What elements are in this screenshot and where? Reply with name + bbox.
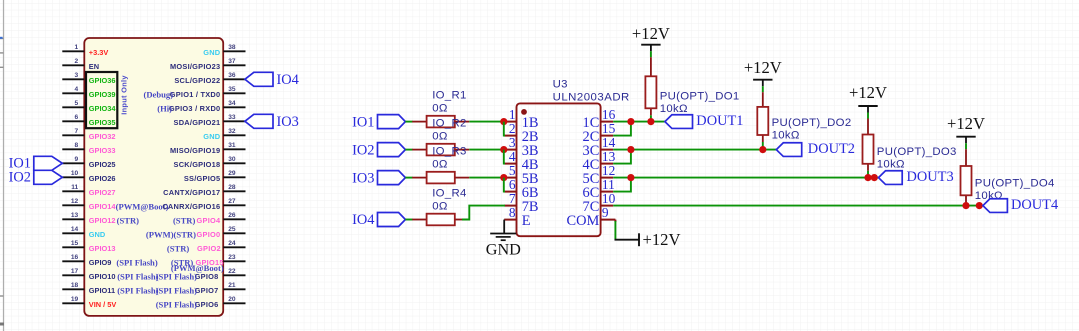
U3 pin 3 (3B) stub — [504, 135, 538, 159]
svg-text:+12V: +12V — [643, 230, 681, 249]
svg-text:28: 28 — [228, 184, 236, 191]
op-chip U3 pin-1 marker dot — [521, 109, 527, 115]
resistor PU(OPT)_DO4 leads — [965, 149, 967, 202]
svg-text:IO_R4: IO_R4 — [432, 187, 466, 199]
wire drop to lower pin (row 2) — [504, 150, 505, 164]
U3 pin 7 (7B) stub — [504, 191, 538, 215]
ESP32 pin 29 stub and number — [223, 170, 245, 177]
svg-text:(PWM@Boot): (PWM@Boot) — [116, 202, 169, 212]
svg-text:MOSI/GPIO23: MOSI/GPIO23 — [170, 62, 220, 71]
resistor IO_R4 body — [427, 214, 455, 226]
ESP32 pin 28 stub and number — [223, 184, 245, 191]
svg-text:12: 12 — [602, 163, 615, 178]
ESP32 pin 2 stub and number — [62, 58, 84, 65]
svg-text:4: 4 — [75, 86, 79, 93]
svg-text:(SPI Flash): (SPI Flash) — [116, 258, 157, 268]
ESP32 pin 11 stub and number — [62, 184, 84, 191]
svg-text:IO_R2: IO_R2 — [432, 118, 466, 130]
resistor PU(OPT)_DO1 body — [645, 76, 656, 108]
svg-text:GPIO6: GPIO6 — [195, 300, 219, 309]
svg-text:7: 7 — [509, 191, 516, 206]
svg-text:IO2: IO2 — [9, 169, 31, 185]
resistor IO_R2 body — [427, 144, 455, 156]
svg-text:35: 35 — [228, 86, 236, 93]
svg-text:GND: GND — [486, 241, 521, 259]
svg-text:(STR): (STR) — [173, 216, 196, 226]
port IO2 (to ESP32 pin 10) — [9, 169, 63, 185]
ESP32 pin 23 stub and number — [223, 254, 245, 261]
svg-text:16: 16 — [71, 254, 79, 261]
junction DOUT4 resistor — [962, 202, 969, 209]
svg-text:19: 19 — [71, 296, 79, 303]
svg-text:14: 14 — [602, 135, 616, 150]
svg-text:PU(OPT)_DO3: PU(OPT)_DO3 — [877, 146, 957, 158]
svg-text:10: 10 — [602, 191, 616, 206]
ESP32 pin 24 stub and number — [223, 240, 245, 247]
svg-text:+12V: +12V — [947, 114, 985, 133]
ESP32 pin 18 stub and number — [62, 282, 84, 289]
ESP32 pin 9 stub and number — [62, 156, 84, 163]
sheet border tick marks — [0, 39, 4, 297]
svg-text:15: 15 — [71, 240, 79, 247]
svg-text:GPIO35: GPIO35 — [89, 118, 116, 127]
junction DOUT3 pins — [627, 174, 634, 181]
ESP32 pin 10 stub and number — [62, 170, 84, 177]
svg-text:GPIO34: GPIO34 — [89, 104, 117, 113]
resistor IO_R1 body — [427, 116, 455, 128]
svg-text:10kΩ: 10kΩ — [877, 158, 905, 170]
resistor PU(OPT)_DO2 body — [757, 107, 768, 135]
U3 pin 14 (3C) stub — [583, 135, 616, 159]
ESP32 pin 38 stub and number — [223, 44, 245, 51]
ESP32 pin 1 stub and number — [62, 44, 84, 51]
svg-text:4: 4 — [509, 149, 516, 164]
svg-text:GPIO7: GPIO7 — [195, 286, 219, 295]
U3 pin 10 (7C) stub — [583, 191, 616, 215]
svg-text:DOUT2: DOUT2 — [808, 141, 855, 157]
svg-text:8: 8 — [75, 142, 79, 149]
wire U3 E pin to ground — [503, 220, 505, 234]
ESP32 pin 8 stub and number — [62, 142, 84, 149]
resistor PU(OPT)_DO4 body — [961, 166, 972, 195]
svg-text:EN: EN — [89, 62, 99, 71]
svg-text:16: 16 — [602, 107, 616, 122]
wire +12V to resistor PU(OPT)_DO2 — [762, 86, 764, 92]
junction at U3 input pin pair 2 — [500, 146, 507, 153]
svg-text:8: 8 — [509, 205, 516, 220]
svg-text:14: 14 — [71, 226, 79, 233]
svg-text:31: 31 — [228, 142, 236, 149]
svg-text:CANTX/GPIO17: CANTX/GPIO17 — [163, 188, 220, 197]
svg-text:GND: GND — [203, 48, 221, 57]
wire resistor PU(OPT)_DO4 to output net — [965, 202, 967, 205]
U3 pin 1 (1B) stub — [504, 107, 538, 131]
resistor IO_R1 leads — [412, 121, 469, 123]
svg-text:(PWM@Boot): (PWM@Boot) — [171, 263, 224, 273]
port DOUT2 — [776, 141, 855, 157]
svg-text:IO3: IO3 — [277, 114, 299, 130]
wire drop pin14 to pin13 — [613, 150, 631, 164]
power +12V (stage 2) — [744, 58, 782, 86]
resistor IO_R3 leads — [412, 177, 469, 179]
U3 pin 5 (5B) stub — [504, 163, 538, 187]
ESP32 pin 6 stub and number — [62, 114, 84, 121]
svg-text:(Debug): (Debug) — [143, 90, 173, 100]
svg-text:32: 32 — [228, 128, 236, 135]
svg-text:12: 12 — [71, 198, 79, 205]
wire drop to lower pin (row 3) — [504, 178, 505, 192]
ESP32 pin 33 stub and number — [223, 114, 245, 121]
svg-text:VIN / 5V: VIN / 5V — [89, 300, 117, 309]
power +12V (stage 3) — [849, 83, 887, 112]
ESP32 pin 26 stub and number — [223, 212, 245, 219]
svg-text:IO4: IO4 — [352, 212, 374, 228]
svg-text:20: 20 — [228, 296, 236, 303]
junction DOUT1 resistor — [647, 118, 654, 125]
svg-text:COM: COM — [567, 213, 600, 229]
power +12V (stage 4) — [947, 114, 985, 143]
svg-text:MISO/GPIO19: MISO/GPIO19 — [170, 146, 220, 155]
ESP32 pin 5 stub and number — [62, 100, 84, 107]
svg-text:GPIO13: GPIO13 — [89, 244, 116, 253]
ESP32 pin 21 stub and number — [223, 282, 245, 289]
svg-text:13: 13 — [71, 212, 79, 219]
svg-text:GPIO9: GPIO9 — [89, 258, 112, 267]
ESP32 pin 19 stub and number — [62, 296, 84, 303]
svg-text:GPIO0: GPIO0 — [197, 230, 221, 239]
svg-text:10kΩ: 10kΩ — [660, 103, 688, 115]
svg-text:GPIO26: GPIO26 — [89, 174, 116, 183]
U3 pin 4 (4B) stub — [504, 149, 538, 173]
svg-text:+12V: +12V — [849, 83, 887, 102]
U3 pin 8 (E) stub — [504, 205, 531, 229]
svg-text:3: 3 — [509, 135, 516, 150]
svg-text:6: 6 — [509, 177, 516, 192]
wire IO_R4 jog to U3 pin 7 — [462, 206, 505, 220]
svg-text:1: 1 — [509, 107, 516, 122]
svg-text:37: 37 — [228, 58, 236, 65]
svg-text:GPIO14: GPIO14 — [89, 202, 117, 211]
wire net DOUT4 (pin 10) — [613, 205, 983, 207]
ESP32 pin 3 stub and number — [62, 72, 84, 79]
svg-text:22: 22 — [228, 268, 236, 275]
ESP32 pin 20 stub and number — [223, 296, 245, 303]
ESP32 pin 7 stub and number — [62, 128, 84, 135]
svg-text:33: 33 — [228, 114, 236, 121]
svg-text:0Ω: 0Ω — [432, 200, 448, 212]
wire +12V to resistor PU(OPT)_DO4 — [965, 143, 967, 149]
svg-text:(SPI Flash): (SPI Flash) — [117, 286, 158, 296]
svg-text:SCL/GPIO22: SCL/GPIO22 — [174, 76, 220, 85]
port IO4 (middle) — [352, 212, 405, 228]
port IO3 (middle) — [352, 170, 405, 186]
svg-text:IO3: IO3 — [352, 170, 374, 186]
svg-text:26: 26 — [228, 212, 236, 219]
ESP32 module body — [84, 38, 223, 316]
ESP32 pin 34 stub and number — [223, 100, 245, 107]
svg-text:+12V: +12V — [744, 58, 782, 77]
svg-text:(SPI Flash): (SPI Flash) — [156, 272, 197, 282]
ESP32 pin 17 stub and number — [62, 268, 84, 275]
svg-text:SS/GPIO5: SS/GPIO5 — [184, 174, 221, 183]
svg-text:PU(OPT)_DO2: PU(OPT)_DO2 — [772, 117, 852, 129]
svg-text:GND: GND — [89, 230, 106, 239]
svg-text:27: 27 — [228, 198, 236, 205]
U3 pin 13 (4C) stub — [583, 149, 616, 173]
wire resistor IO_R2 to U3 — [469, 149, 504, 151]
svg-text:5: 5 — [509, 163, 516, 178]
U3 pin 15 (2C) stub — [583, 121, 616, 145]
port IO3 (to ESP32 pin 33) — [245, 114, 299, 130]
svg-text:GPIO8: GPIO8 — [195, 272, 219, 281]
svg-text:(SPI Flash): (SPI Flash) — [117, 272, 158, 282]
sheet cursor dash (blue) — [0, 37, 3, 39]
svg-text:(Hi): (Hi) — [157, 104, 172, 114]
junction DOUT2 resistor — [759, 146, 766, 153]
wire resistor PU(OPT)_DO2 to output net — [762, 142, 764, 150]
input-only group box — [86, 72, 117, 128]
svg-text:GPIO11: GPIO11 — [89, 286, 115, 295]
svg-text:PU(OPT)_DO4: PU(OPT)_DO4 — [975, 177, 1055, 189]
resistor IO_R4 leads — [412, 219, 469, 221]
svg-text:23: 23 — [228, 254, 236, 261]
svg-text:PU(OPT)_DO1: PU(OPT)_DO1 — [660, 90, 740, 102]
svg-text:GND: GND — [203, 132, 221, 141]
wire IO2 port to resistor — [405, 149, 412, 151]
svg-text:E: E — [522, 213, 531, 229]
svg-text:GPIO32: GPIO32 — [89, 132, 116, 141]
svg-text:DOUT1: DOUT1 — [696, 113, 743, 129]
junction DOUT2 pins — [627, 146, 634, 153]
power +12V (stage 1) — [632, 24, 670, 51]
wire resistor IO_R3 to U3 — [469, 177, 504, 179]
junction DOUT4 port — [976, 202, 983, 209]
wire +12V to resistor PU(OPT)_DO1 — [650, 51, 652, 57]
svg-text:34: 34 — [228, 100, 236, 107]
svg-text:GPIO1 / TXD0: GPIO1 / TXD0 — [170, 90, 221, 99]
wire net DOUT3 (pins 12/11) — [613, 177, 878, 179]
wire IO3 port to resistor — [405, 177, 412, 179]
svg-text:GPIO10: GPIO10 — [89, 272, 116, 281]
resistor PU(OPT)_DO1 leads — [650, 57, 652, 115]
wire IO1 port to resistor — [405, 121, 412, 123]
wire U3 COM pin to +12V — [614, 220, 616, 240]
port DOUT1 — [665, 113, 744, 129]
svg-text:(STR): (STR) — [117, 216, 140, 226]
svg-text:9: 9 — [602, 205, 609, 220]
svg-text:+3.3V: +3.3V — [89, 48, 109, 57]
junction DOUT3 resistor — [864, 174, 871, 181]
svg-text:11: 11 — [602, 177, 615, 192]
svg-text:6: 6 — [75, 114, 79, 121]
svg-text:GPIO39: GPIO39 — [89, 90, 116, 99]
svg-text:Input Only: Input Only — [120, 75, 129, 115]
svg-text:10kΩ: 10kΩ — [772, 130, 800, 142]
svg-text:IO1: IO1 — [352, 114, 374, 130]
ESP32 pin 4 stub and number — [62, 86, 84, 93]
wire drop to lower pin (row 1) — [504, 122, 505, 136]
svg-text:30: 30 — [228, 156, 236, 163]
svg-text:0Ω: 0Ω — [432, 158, 448, 170]
U3 pin 12 (5C) stub — [583, 163, 616, 187]
svg-text:GPIO25: GPIO25 — [89, 160, 116, 169]
ESP32 pin 16 stub and number — [62, 254, 84, 261]
svg-text:(STR): (STR) — [167, 244, 190, 254]
svg-text:CANRX/GPIO16: CANRX/GPIO16 — [162, 202, 220, 211]
wire drop pin12 to pin11 — [613, 178, 631, 192]
svg-text:38: 38 — [228, 44, 236, 51]
svg-text:IO4: IO4 — [277, 72, 299, 88]
svg-text:9: 9 — [75, 156, 79, 163]
ESP32 pin 13 stub and number — [62, 212, 84, 219]
svg-text:U3: U3 — [553, 79, 568, 91]
junction DOUT3 port — [871, 174, 878, 181]
svg-text:2: 2 — [75, 58, 79, 65]
svg-text:25: 25 — [228, 226, 236, 233]
svg-text:18: 18 — [71, 282, 79, 289]
svg-text:(SPI Flash): (SPI Flash) — [156, 300, 197, 310]
resistor IO_R3 body — [427, 172, 455, 184]
ESP32 pin 25 stub and number — [223, 226, 245, 233]
ESP32 pin 35 stub and number — [223, 86, 245, 93]
svg-text:SCK/GPIO18: SCK/GPIO18 — [174, 160, 221, 169]
sheet border line — [3, 0, 5, 331]
svg-text:GPIO36: GPIO36 — [89, 76, 116, 85]
wire +12V to resistor PU(OPT)_DO3 — [867, 113, 869, 119]
wire resistor PU(OPT)_DO3 to output net — [867, 171, 869, 178]
ESP32 pin 14 stub and number — [62, 226, 84, 233]
svg-text:GPIO12: GPIO12 — [89, 216, 116, 225]
ESP32 pin 22 stub and number — [223, 268, 245, 275]
ground (earth symbol) — [490, 234, 516, 241]
svg-text:ULN2003ADR: ULN2003ADR — [553, 92, 630, 104]
svg-text:IO_R3: IO_R3 — [432, 146, 466, 158]
svg-text:0Ω: 0Ω — [432, 130, 448, 142]
svg-text:13: 13 — [602, 149, 616, 164]
ESP32 pin 36 stub and number — [223, 72, 245, 79]
wire resistor PU(OPT)_DO1 to output net — [650, 115, 652, 121]
svg-text:GPIO27: GPIO27 — [89, 188, 116, 197]
ESP32 pin 12 stub and number — [62, 198, 84, 205]
svg-text:GPIO4: GPIO4 — [197, 216, 221, 225]
svg-text:29: 29 — [228, 170, 236, 177]
port DOUT3 — [879, 169, 954, 185]
svg-text:2: 2 — [509, 121, 516, 136]
ESP32 pin 27 stub and number — [223, 198, 245, 205]
U3 pin 6 (6B) stub — [504, 177, 538, 201]
wire IO4 port to resistor — [405, 219, 412, 221]
ESP32 pin 32 stub and number — [223, 128, 245, 135]
svg-text:IO2: IO2 — [352, 142, 374, 158]
svg-text:+12V: +12V — [632, 24, 670, 43]
port DOUT4 — [983, 197, 1058, 213]
ESP32 pin 30 stub and number — [223, 156, 245, 163]
svg-text:GPIO2: GPIO2 — [197, 244, 221, 253]
svg-text:36: 36 — [228, 72, 236, 79]
svg-text:17: 17 — [71, 268, 79, 275]
junction at U3 input pin pair 3 — [500, 174, 507, 181]
wire net DOUT2 (pins 14/13) — [613, 149, 776, 151]
svg-text:SDA/GPIO21: SDA/GPIO21 — [174, 118, 221, 127]
port IO2 (middle) — [352, 142, 405, 158]
wire net DOUT1 (pins 16/15) — [613, 121, 665, 123]
svg-text:(PWM)(STR): (PWM)(STR) — [146, 230, 196, 240]
U3 pin 16 (1C) stub — [583, 107, 616, 131]
svg-text:GPIO3 / RXD0: GPIO3 / RXD0 — [169, 104, 220, 113]
wire resistor IO_R1 to U3 — [469, 121, 504, 123]
ESP32 pin 15 stub and number — [62, 240, 84, 247]
op-chip U3 body — [517, 103, 601, 236]
U3 pin 11 (6C) stub — [583, 177, 615, 201]
junction at U3 input pin pair 1 — [500, 118, 507, 125]
svg-text:15: 15 — [602, 121, 616, 136]
U3 pin 2 (2B) stub — [504, 121, 538, 145]
svg-text:7: 7 — [75, 128, 79, 135]
resistor PU(OPT)_DO3 leads — [867, 119, 869, 171]
svg-text:5: 5 — [75, 100, 79, 107]
svg-text:IO_R1: IO_R1 — [432, 90, 466, 102]
svg-text:3: 3 — [75, 72, 79, 79]
svg-text:10: 10 — [71, 170, 79, 177]
svg-text:DOUT3: DOUT3 — [907, 169, 954, 185]
resistor PU(OPT)_DO3 body — [863, 135, 874, 164]
port IO1 (to ESP32 pin 9) — [9, 155, 63, 171]
svg-text:1: 1 — [75, 44, 79, 51]
resistor IO_R2 leads — [412, 149, 469, 151]
port IO1 (middle) — [352, 114, 405, 130]
wire drop pin16 to pin15 — [613, 122, 631, 136]
svg-text:GPIO33: GPIO33 — [89, 146, 116, 155]
svg-text:24: 24 — [228, 240, 236, 247]
junction DOUT1 pins — [627, 118, 634, 125]
ESP32 pin 31 stub and number — [223, 142, 245, 149]
power +12V (COM, bar right) — [615, 230, 681, 249]
svg-text:DOUT4: DOUT4 — [1011, 197, 1058, 213]
ESP32 pin 37 stub and number — [223, 58, 245, 65]
svg-text:0Ω: 0Ω — [432, 102, 448, 114]
resistor PU(OPT)_DO2 leads — [762, 92, 764, 142]
svg-text:11: 11 — [71, 184, 78, 191]
U3 pin 9 (COM) stub — [567, 205, 616, 229]
port IO4 (to ESP32 pin 36) — [245, 72, 299, 88]
svg-text:21: 21 — [228, 282, 236, 289]
svg-text:(SPI Flash): (SPI Flash) — [156, 286, 197, 296]
